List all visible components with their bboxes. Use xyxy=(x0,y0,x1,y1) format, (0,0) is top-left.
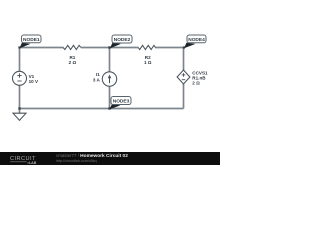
svg-text:I1: I1 xyxy=(96,72,100,77)
svg-text:2 Ω: 2 Ω xyxy=(192,81,200,86)
svg-text:NODE1: NODE1 xyxy=(23,37,40,43)
svg-text:NODE3: NODE3 xyxy=(113,98,130,104)
svg-text:1 Ω: 1 Ω xyxy=(144,60,152,65)
svg-text:2 Ω: 2 Ω xyxy=(69,60,77,65)
svg-text:10 V: 10 V xyxy=(29,79,39,84)
svg-text:NODE4: NODE4 xyxy=(188,37,205,43)
svg-text:http://circuitlab.com/c5kq: http://circuitlab.com/c5kq xyxy=(56,159,97,163)
svg-text:NODE2: NODE2 xyxy=(114,37,131,43)
svg-text:≡LAB: ≡LAB xyxy=(27,161,37,165)
svg-text:3 A: 3 A xyxy=(93,77,101,82)
